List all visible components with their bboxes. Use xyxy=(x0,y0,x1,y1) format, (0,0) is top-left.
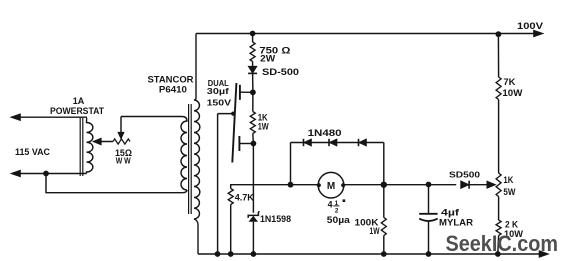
rheostat wiper arrow from primary wire xyxy=(120,117,122,134)
capacitor C1a top section plate xyxy=(239,85,241,100)
capacitor C1 common plate (dual 30µf) xyxy=(232,83,236,163)
wire: top cap to node xyxy=(240,91,253,93)
wire: meter to right node xyxy=(343,184,384,186)
rheostat 15Ω WW element xyxy=(113,139,130,144)
diode SD-500 xyxy=(248,66,257,73)
wire: 4µf to ground rail xyxy=(428,221,430,254)
junction: top rail / 7K branch xyxy=(496,31,502,37)
wire: 100K to ground rail xyxy=(383,236,385,255)
wire: cap common to ground drop xyxy=(218,113,234,115)
svg-text:50µa: 50µa xyxy=(327,215,351,225)
diode D2 1N480 xyxy=(329,139,337,146)
zener diode 1N1598 xyxy=(249,216,257,221)
junction: top rail / 750Ω branch xyxy=(250,31,256,37)
wire: 1N480 branch left riser xyxy=(290,143,292,185)
terminal arrow 100V xyxy=(534,30,544,37)
wire: 750Ω to SD-500 xyxy=(252,62,254,67)
autotransformer T1 core xyxy=(79,118,81,176)
svg-text:150V: 150V xyxy=(207,98,232,108)
resistor 7K 10W xyxy=(496,77,501,100)
svg-text:2 K: 2 K xyxy=(505,220,518,230)
svg-text:4.7K: 4.7K xyxy=(235,192,254,202)
wire: SD500 to pot wiper xyxy=(469,184,487,186)
wire: motor line left corner xyxy=(231,185,319,189)
wire: lower return drop xyxy=(46,174,187,193)
wire: bottom cap to node xyxy=(239,143,253,145)
terminal arrow: 115 VAC upper lead xyxy=(16,116,87,118)
transformer T2 primary winding xyxy=(181,117,187,191)
junction: 4µf tap xyxy=(426,182,432,188)
junction: cap common tap xyxy=(231,112,235,116)
svg-text:1A: 1A xyxy=(73,96,85,106)
svg-text:7K: 7K xyxy=(503,77,516,87)
wire: 1N480 branch top xyxy=(291,142,384,144)
wire: pot to 2K xyxy=(498,197,500,221)
svg-text:2: 2 xyxy=(335,208,339,215)
wire: 4.7K to ground rail xyxy=(230,205,232,255)
junction: variac bottom tap xyxy=(43,171,49,177)
wire: ground rail (bottom) xyxy=(198,253,545,255)
junction: 4µf / ground rail xyxy=(426,251,432,257)
svg-text:1W: 1W xyxy=(258,121,269,131)
wire: zener to ground rail xyxy=(252,221,254,254)
resistor 4.7K xyxy=(228,189,233,205)
resistor 750Ω 2W xyxy=(250,42,255,62)
terminal arrow: 115 VAC lower lead xyxy=(16,173,87,175)
svg-text:STANCOR: STANCOR xyxy=(148,75,195,85)
wire: 1K to bottom cap node xyxy=(252,134,255,144)
diode SD500 xyxy=(461,181,470,189)
wire: 4µf drop xyxy=(428,185,430,214)
svg-text:W W: W W xyxy=(116,156,131,165)
wire: rail to 7K xyxy=(497,34,499,77)
svg-text:100V: 100V xyxy=(517,21,543,31)
svg-text:10W: 10W xyxy=(502,88,523,98)
autotransformer T1 winding xyxy=(87,117,93,173)
transformer T2 core xyxy=(188,104,190,214)
svg-text:SeekIC.com: SeekIC.com xyxy=(446,231,559,256)
svg-text:SD500: SD500 xyxy=(449,170,480,180)
wire: +rail (top) xyxy=(196,33,539,35)
diode D1 1N480 xyxy=(304,139,312,146)
resistor 100K 1W xyxy=(381,218,386,236)
svg-text:1W: 1W xyxy=(370,226,380,236)
wire: cap common ground drop xyxy=(217,114,219,254)
wire: 2K to ground rail xyxy=(497,236,500,255)
svg-text:1K: 1K xyxy=(503,175,513,185)
resistor 1K 1W (bleeder) xyxy=(250,112,255,134)
wiper arrow of variac xyxy=(93,141,113,143)
svg-text:4: 4 xyxy=(328,200,333,210)
junction: 100K / ground rail xyxy=(381,251,387,257)
wire: cap node down across motor line xyxy=(252,144,254,213)
meter M 50µa body xyxy=(318,172,344,198)
wire: node to 100K xyxy=(383,185,385,218)
svg-text:30µf: 30µf xyxy=(207,86,229,96)
svg-text:1N480: 1N480 xyxy=(308,128,342,138)
junction: zener / ground rail xyxy=(251,251,257,257)
svg-text:2W: 2W xyxy=(260,54,276,64)
svg-text:115 VAC: 115 VAC xyxy=(15,147,50,157)
svg-text:1N1598: 1N1598 xyxy=(260,214,291,224)
resistor 2K 10W xyxy=(496,220,501,236)
svg-text:POWERSTAT: POWERSTAT xyxy=(50,106,104,116)
svg-text:M: M xyxy=(327,181,335,192)
svg-text:MYLAR: MYLAR xyxy=(439,218,474,228)
junction: motor line / 1N480 left xyxy=(288,182,294,188)
wire: 1N480 branch right riser xyxy=(383,143,385,185)
svg-text:4µf: 4µf xyxy=(441,207,460,217)
potentiometer 1K 5W element xyxy=(496,173,501,197)
wire: secondary bottom lead xyxy=(194,219,198,254)
junction: common drop / ground rail xyxy=(215,251,221,257)
pot wiper arrow xyxy=(487,181,496,189)
svg-text:5W: 5W xyxy=(503,187,515,197)
junction: 4.7K / ground rail xyxy=(228,251,234,257)
wire: 7K to pot xyxy=(498,100,500,174)
transformer T2 secondary winding xyxy=(194,34,200,220)
capacitor C2 4µf MYLAR xyxy=(419,213,437,215)
svg-text:P6410: P6410 xyxy=(159,85,187,95)
wire: motor line to SD500 xyxy=(384,184,456,186)
wire: rheostat wiper to primary top xyxy=(121,116,182,118)
wire: rail to 750Ω xyxy=(252,34,254,43)
meter terminal nubs xyxy=(317,183,321,187)
junction: 2K / ground rail xyxy=(495,251,501,257)
junction: top cap / 1K node xyxy=(250,89,256,95)
capacitor C1b bottom section plate xyxy=(238,136,240,151)
terminal arrow: ground rail end xyxy=(539,251,549,258)
wire: to 1K xyxy=(252,92,254,111)
junction: bottom cap / zener node xyxy=(251,141,257,147)
wire: SD-500 to cap node xyxy=(252,73,254,92)
diode D3 1N480 xyxy=(359,139,367,146)
svg-text:SD-500: SD-500 xyxy=(262,67,299,77)
junction: motor line / 1N480 right / 100K xyxy=(381,182,387,188)
